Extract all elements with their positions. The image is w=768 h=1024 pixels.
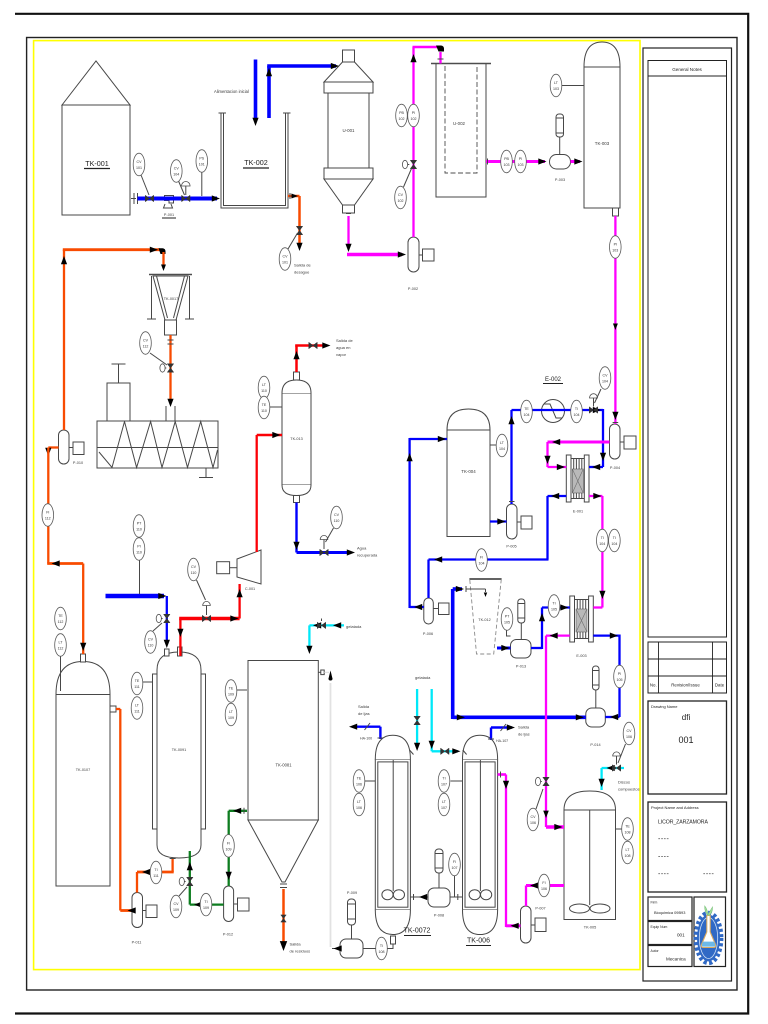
wire gelatada feed to TK-0081	[309, 624, 344, 626]
svg-text:111: 111	[134, 685, 139, 689]
svg-text:FI: FI	[46, 511, 49, 515]
instrument TI-109 on line	[200, 893, 212, 916]
svg-text:CV: CV	[627, 729, 633, 733]
pump P-006	[423, 598, 449, 636]
svg-text:gelatada: gelatada	[346, 624, 362, 629]
instrument CV-106	[618, 722, 635, 763]
wire TE/LT-109 to TK-0081	[236, 689, 247, 691]
wire P-006 to TK-004	[410, 606, 424, 608]
instrument LT-110 / TE-110	[258, 376, 270, 419]
instrument LT-103	[550, 74, 562, 97]
svg-text:HA-100: HA-100	[360, 737, 372, 741]
instrument PB-103 / PI-103	[501, 150, 527, 173]
svg-text:TI: TI	[154, 868, 157, 872]
svg-text:TK-006: TK-006	[467, 938, 490, 945]
pump P-005	[506, 504, 532, 549]
svg-text:General Notes: General Notes	[672, 67, 702, 72]
wire PT-105 connector to P-013	[507, 630, 511, 636]
tank TK-002 (open tank)	[219, 113, 291, 208]
svg-text:110: 110	[191, 571, 197, 575]
svg-text:E-001: E-001	[573, 510, 583, 514]
svg-text:P-011: P-011	[132, 941, 142, 945]
wire TE/LT-108 to TK-005	[616, 828, 623, 830]
svg-text:104: 104	[599, 542, 605, 546]
svg-text:TE: TE	[524, 407, 529, 411]
svg-text:gelatada: gelatada	[415, 675, 431, 680]
svg-text:101: 101	[136, 166, 142, 170]
svg-text:PI: PI	[618, 672, 621, 676]
svg-text:TK-002: TK-002	[244, 158, 268, 167]
svg-text:U-001: U-001	[343, 128, 356, 133]
svg-text:109: 109	[203, 906, 209, 910]
plate heat exchanger E-001	[566, 455, 589, 514]
column TK-013	[282, 372, 311, 503]
svg-text:HA-107: HA-107	[496, 739, 508, 743]
instrument PS-101	[196, 150, 208, 173]
valve on hopper outlet	[167, 364, 173, 372]
wire TK-0081 to P-012	[229, 810, 247, 812]
svg-text:TK-0072: TK-0072	[404, 928, 431, 935]
pump P-003 with dampener	[550, 114, 571, 182]
svg-text:Bioquimica 09B93: Bioquimica 09B93	[654, 910, 685, 915]
wire P-007 to TK-006	[506, 924, 521, 927]
valve on TK-002 drain	[296, 226, 302, 234]
svg-text:110: 110	[261, 409, 267, 413]
svg-text:recuperada: recuperada	[357, 553, 378, 558]
fermenter TK-0072	[375, 735, 431, 944]
svg-text:Drawing Name: Drawing Name	[651, 704, 678, 709]
svg-text:110: 110	[334, 519, 340, 523]
wire TK-013 vapor out	[295, 346, 298, 373]
svg-text:Salida de: Salida de	[294, 263, 311, 268]
instrument CV-102	[395, 169, 412, 209]
svg-text:103: 103	[612, 249, 618, 253]
flange TK-006 cyan inlet	[463, 750, 467, 755]
wire TK-002 drain	[288, 195, 300, 198]
jacketed tank TK-0091	[153, 647, 206, 858]
wire LT-103 to TK-003	[561, 85, 584, 87]
column TK-003	[584, 42, 620, 216]
svg-text:LICOR_ZARZAMORA: LICOR_ZARZAMORA	[658, 820, 708, 826]
svg-text:dfi: dfi	[682, 713, 691, 722]
heat exchanger E-002 (shell)	[542, 377, 565, 423]
svg-text:FI: FI	[453, 860, 456, 864]
svg-text:106: 106	[541, 887, 547, 891]
column U-001	[324, 50, 373, 213]
svg-text:104: 104	[602, 380, 608, 384]
wire P-008 discharge to TK-006	[450, 896, 463, 898]
svg-text:compuestos: compuestos	[618, 787, 640, 792]
svg-text:TK-013: TK-013	[290, 437, 302, 441]
svg-text:CV: CV	[191, 565, 197, 569]
instrument PT-105	[501, 608, 513, 631]
logo gear (TecNM style)	[696, 906, 720, 963]
instrument CV-101	[133, 153, 149, 195]
svg-text:Autor: Autor	[651, 949, 660, 953]
screw conveyor	[97, 364, 218, 478]
hopper TK-0017	[147, 275, 194, 336]
svg-text:Mecanica: Mecanica	[666, 957, 686, 962]
svg-text:P-004: P-004	[610, 466, 620, 470]
wire TE/LT-112 stem	[60, 656, 62, 691]
wire TK-0107 to P-011	[116, 708, 120, 710]
svg-text:TI: TI	[613, 536, 616, 540]
instrument CV-110 blue drop	[145, 623, 162, 653]
svg-text:CV: CV	[603, 374, 609, 378]
svg-text:----: ----	[658, 854, 669, 861]
svg-text:TK-0017: TK-0017	[164, 297, 179, 301]
wire P-004 to E-001	[548, 441, 610, 444]
svg-text:Project Name and Address: Project Name and Address	[651, 805, 699, 810]
svg-text:PI: PI	[519, 157, 522, 161]
svg-text:CV: CV	[137, 160, 143, 164]
svg-text:104: 104	[479, 562, 485, 566]
wire TK-0081 residuos	[282, 889, 285, 944]
wire recycle riser to TK-0081 (light)	[330, 683, 332, 947]
svg-text:111: 111	[134, 710, 139, 714]
svg-text:Salida de: Salida de	[336, 338, 353, 343]
drawing name box	[648, 701, 727, 794]
instrument TI-108 on line	[376, 937, 388, 960]
svg-text:PS: PS	[199, 157, 204, 161]
svg-text:P-009: P-009	[347, 891, 357, 895]
instrument TI-104 on line	[571, 400, 583, 423]
svg-text:103: 103	[518, 163, 524, 167]
svg-text:TE: TE	[135, 679, 140, 683]
valve on gelatada header	[317, 622, 325, 628]
wire P-010 suction loop to TK-0107	[48, 446, 58, 448]
instrument FI-109 on line	[223, 835, 235, 858]
svg-text:CV: CV	[174, 902, 180, 906]
svg-text:103: 103	[553, 87, 559, 91]
hopper tank TK-0081	[248, 661, 318, 888]
instrument FI-106 on line	[538, 874, 550, 897]
svg-text:desague: desague	[294, 270, 310, 275]
wire U-002 to P-003 to TK-003	[486, 160, 545, 163]
svg-text:FI: FI	[227, 841, 230, 845]
wire gelatada feed to TK-0072	[410, 750, 414, 755]
svg-text:CV: CV	[143, 339, 149, 343]
wire C-001 discharge to TK-013	[256, 435, 258, 552]
svg-text:107: 107	[441, 806, 447, 810]
svg-text:agua en: agua en	[336, 345, 350, 350]
logo box	[694, 897, 726, 967]
svg-text:TE: TE	[357, 777, 362, 781]
valve with actuator on TK-001 line	[182, 195, 190, 201]
wire TK-001 to TK-002 feed	[131, 198, 136, 200]
instrument CV-110 agua	[326, 506, 343, 542]
svg-text:TI: TI	[442, 777, 445, 781]
instrument TI-107 / LT-107	[438, 770, 450, 816]
wire P-012 to TK-0091	[190, 903, 224, 905]
svg-text:P-006: P-006	[423, 632, 433, 636]
svg-text:P-014: P-014	[590, 743, 600, 747]
valve CV-110 on red line	[202, 615, 210, 621]
svg-text:106: 106	[530, 821, 536, 825]
svg-text:109: 109	[228, 716, 234, 720]
wire U-001 bottoms	[347, 216, 349, 248]
pump P-007	[521, 906, 547, 943]
valve on agua recuperada line	[320, 549, 328, 555]
pump P-013 with dampener	[511, 599, 532, 669]
svg-text:TK-005: TK-005	[584, 926, 596, 930]
wire TK-012 to P-013	[497, 647, 511, 650]
instrument PT-110 / PI-110 stacked	[133, 515, 145, 561]
svg-text:106: 106	[626, 735, 632, 739]
instrument CV-104b	[595, 367, 611, 403]
tank TK-004	[447, 409, 490, 537]
valve check on TK-006 salida	[501, 724, 507, 731]
svg-text:de residuos: de residuos	[290, 949, 311, 954]
svg-text:112: 112	[45, 517, 51, 521]
svg-text:112: 112	[58, 620, 64, 624]
plate heat exchanger E-003	[570, 596, 594, 658]
instrument FI-112 on line	[42, 504, 54, 527]
svg-text:102: 102	[411, 117, 417, 121]
svg-text:110: 110	[261, 389, 267, 393]
instrument PI-105 on line	[614, 665, 626, 688]
instrument PI-103 on line	[610, 236, 622, 259]
svg-text:104: 104	[499, 447, 505, 451]
wire E-003 outlet to P-014	[593, 634, 619, 636]
svg-text:107: 107	[452, 866, 458, 870]
pump P-004	[610, 424, 637, 470]
pump P-014 with dampener	[586, 666, 606, 747]
svg-text:TK-0091: TK-0091	[172, 748, 187, 752]
svg-text:108: 108	[625, 831, 631, 835]
svg-text:105: 105	[617, 678, 623, 682]
svg-text:PI: PI	[614, 243, 617, 247]
svg-text:108: 108	[625, 854, 631, 858]
leaves	[705, 906, 713, 916]
wire gelatada feed to TK-006	[431, 689, 433, 751]
instrument CV-101 drain	[279, 233, 297, 270]
svg-text:PB: PB	[504, 157, 509, 161]
valve on TK-001 line	[145, 195, 153, 201]
svg-text:TE: TE	[229, 687, 234, 691]
instrument CV-106b	[527, 789, 543, 831]
svg-text:TE: TE	[625, 825, 630, 829]
pump P-009 with dampener	[340, 891, 363, 958]
svg-text:FI: FI	[542, 881, 545, 885]
wire TK-005 lower to P-007	[526, 884, 564, 887]
svg-text:104: 104	[524, 413, 530, 417]
svg-text:105: 105	[551, 608, 557, 612]
instrument FI-107	[449, 853, 461, 876]
tank U-002 (lined tank)	[431, 64, 491, 198]
general notes box	[648, 61, 727, 638]
instrument TE-112 / LT-112	[55, 607, 67, 656]
svg-text:TE: TE	[58, 614, 63, 618]
valve CV-104 on E-002 line	[589, 407, 597, 413]
compressor C-001	[217, 550, 261, 591]
valve on vapor salida line	[309, 342, 317, 348]
svg-text:Salida: Salida	[358, 704, 370, 709]
svg-text:P-005: P-005	[506, 545, 516, 549]
agitated tank TK-005	[564, 791, 616, 930]
fermenter TK-006	[463, 735, 498, 945]
svg-text:P-012: P-012	[223, 933, 233, 937]
svg-text:Revision/Issue: Revision/Issue	[671, 683, 700, 688]
valve on discos compuestos	[612, 765, 620, 771]
svg-text:de ljas: de ljas	[358, 711, 370, 716]
svg-text:112: 112	[143, 345, 149, 349]
wire E-001 to E-003	[589, 495, 602, 497]
wire TK-0091 vapor to C-001	[179, 619, 181, 657]
wire TE/LT-111 to TK-0091	[142, 681, 153, 683]
svg-text:U-002: U-002	[453, 121, 466, 126]
valve on magenta TK-005 feed	[543, 777, 549, 785]
valve on cyan drop TK-0072	[414, 716, 420, 724]
svg-text:TI: TI	[575, 407, 578, 411]
wire TK-003 bottoms to P-004	[614, 216, 616, 424]
wire P-005 riser	[510, 410, 512, 504]
valve on cyan line TK-006	[441, 748, 449, 754]
yellow inner border	[34, 41, 640, 970]
svg-text:----: ----	[658, 836, 669, 843]
trapezoid tank TK-012 (dashed)	[469, 579, 501, 654]
pump P-002	[408, 237, 434, 291]
svg-text:101: 101	[199, 163, 205, 167]
instrument TE-108 / LT-108	[622, 818, 634, 864]
svg-text:PT: PT	[137, 522, 142, 526]
svg-text:Date: Date	[715, 683, 725, 688]
instrument TE-109 / LT-109	[225, 680, 237, 726]
title block outer	[643, 48, 732, 981]
svg-text:PT: PT	[505, 615, 510, 619]
svg-text:TK-0081: TK-0081	[276, 763, 293, 768]
valve on residuos line	[281, 915, 286, 922]
valve on utility header drop	[164, 614, 170, 622]
svg-text:CV: CV	[148, 638, 154, 642]
project name box	[648, 802, 727, 892]
svg-text:CV: CV	[283, 255, 289, 259]
equip num box B	[648, 922, 692, 945]
svg-text:E-003: E-003	[576, 654, 586, 658]
svg-text:104: 104	[173, 173, 179, 177]
svg-text:PI: PI	[137, 545, 140, 549]
svg-text:----: ----	[658, 871, 669, 878]
svg-text:PI: PI	[412, 111, 415, 115]
svg-text:108: 108	[379, 950, 385, 954]
svg-text:110: 110	[136, 551, 142, 555]
valve check on TK-0072 salida	[365, 723, 371, 730]
wire LT-104 to TK-004	[490, 444, 499, 446]
instrument CV-110 red	[188, 558, 206, 600]
wire TE/LT-106 to TK-0072	[364, 780, 375, 782]
tank TK-0107	[56, 654, 116, 886]
svg-text:CV: CV	[531, 815, 537, 819]
wire P-009 discharge	[332, 948, 340, 950]
svg-text:E-002: E-002	[545, 377, 562, 383]
svg-text:Discos: Discos	[618, 780, 630, 785]
svg-text:001: 001	[677, 933, 685, 938]
svg-text:TK-0107: TK-0107	[76, 768, 91, 772]
wire E-002 hot line	[512, 409, 604, 411]
valve on P-002 riser	[410, 160, 416, 168]
wire E-003 to TK-005 upper	[546, 634, 570, 636]
instrument TE-104 on line	[521, 400, 533, 423]
wire TI/LT-107 to TK-006	[451, 780, 463, 782]
wire TK-002 vent riser to U-001	[267, 66, 271, 118]
svg-text:TK-003: TK-003	[595, 141, 610, 146]
wire PT/PI-110 stem	[139, 557, 141, 594]
instrument CV-109	[170, 887, 187, 918]
wire LT/TE-110 to TK-013	[268, 406, 282, 408]
pump P-011	[132, 893, 157, 945]
svg-text:CV: CV	[174, 167, 180, 171]
svg-text:111: 111	[153, 874, 158, 878]
svg-text:P-013: P-013	[516, 665, 526, 669]
instrument CV-112	[140, 332, 167, 365]
wire P-013 to E-003	[531, 647, 542, 649]
wire TK-0017 to conveyor	[169, 335, 171, 402]
instrument TE-111 / LT-111	[131, 672, 143, 719]
svg-text:105: 105	[504, 621, 510, 625]
revision table	[648, 642, 727, 693]
svg-text:CV: CV	[334, 513, 340, 517]
svg-text:TK-004: TK-004	[461, 469, 476, 474]
instrument TI-105	[548, 595, 560, 618]
instrument TI-111 on line	[150, 861, 162, 884]
pump P-012	[223, 886, 249, 937]
svg-text:PB: PB	[399, 111, 404, 115]
svg-text:109: 109	[173, 908, 179, 912]
flask	[701, 916, 715, 948]
svg-text:Alimentacion inicial: Alimentacion inicial	[214, 89, 249, 94]
instrument TE-106 / LT-106	[353, 770, 365, 816]
wire TK-0091 bottom to P-011	[171, 859, 173, 872]
wire E-001 outlet to P-006	[548, 495, 567, 497]
svg-text:102: 102	[398, 199, 404, 203]
wire discos compuestos to TK-005	[602, 767, 624, 769]
svg-text:104: 104	[574, 413, 580, 417]
svg-text:CV: CV	[398, 193, 404, 197]
svg-text:----: ----	[703, 871, 714, 878]
pump P-001	[162, 196, 176, 219]
svg-text:Equip Num: Equip Num	[651, 925, 668, 929]
svg-text:FI: FI	[480, 556, 483, 560]
svg-text:C-001: C-001	[245, 587, 255, 591]
instrument FI-104 on line	[476, 549, 488, 572]
svg-text:TI: TI	[204, 900, 207, 904]
pump P-010	[59, 430, 85, 465]
svg-text:103: 103	[504, 163, 510, 167]
author box C	[648, 946, 692, 967]
svg-text:102: 102	[399, 117, 405, 121]
wire TK-004 to P-005	[490, 520, 507, 522]
wire TK-0072 bottom to P-009	[363, 944, 393, 949]
svg-text:TK-012: TK-012	[478, 618, 490, 622]
svg-text:No.: No.	[650, 683, 657, 688]
svg-text:P-010: P-010	[73, 461, 83, 465]
svg-text:P-002: P-002	[408, 287, 418, 291]
svg-text:106: 106	[356, 783, 362, 787]
instrument CV-104	[171, 160, 185, 195]
instrument TI-104 pair below E-001	[597, 529, 621, 552]
svg-text:P-003: P-003	[555, 178, 565, 182]
wire FI-107 stem	[454, 875, 456, 897]
tank TK-001 (silo)	[62, 61, 130, 215]
instrument LT-104	[496, 434, 508, 457]
svg-text:104: 104	[611, 542, 617, 546]
svg-text:Salida: Salida	[518, 725, 530, 730]
svg-text:Salida: Salida	[290, 942, 302, 947]
svg-text:Firm: Firm	[651, 901, 658, 905]
svg-text:vapor: vapor	[336, 352, 347, 357]
pump P-008 with dampener	[428, 849, 450, 918]
svg-text:de ljas: de ljas	[518, 732, 530, 737]
